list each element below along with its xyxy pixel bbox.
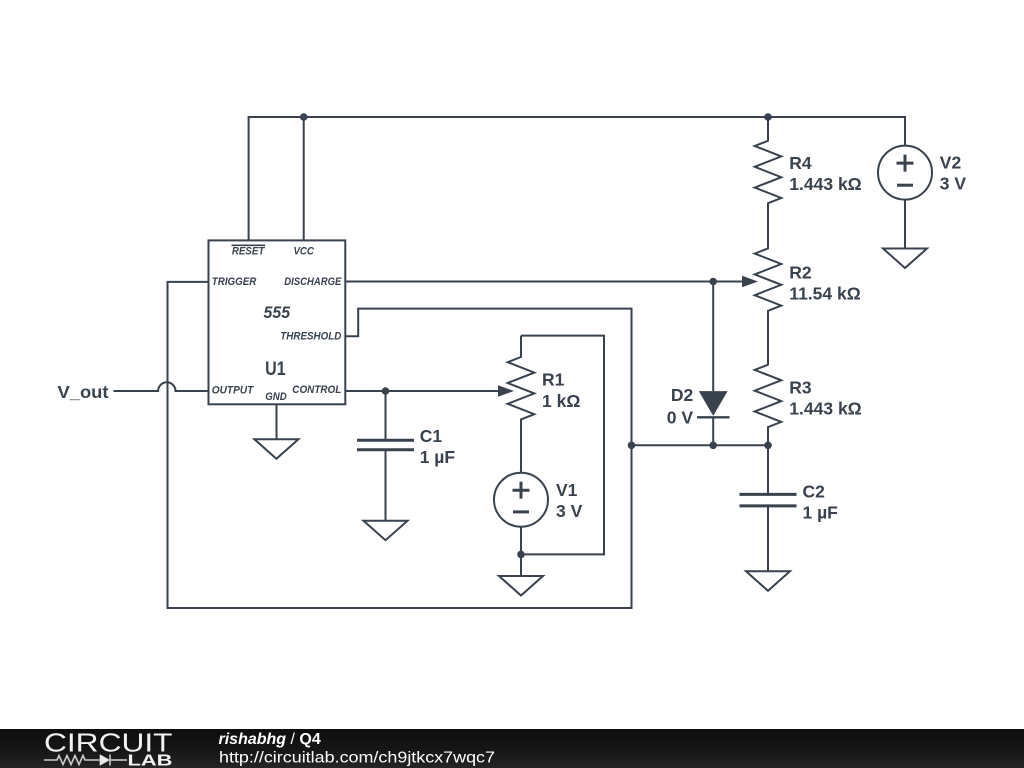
svg-text:TRIGGER: TRIGGER: [212, 276, 257, 288]
svg-text:LAB: LAB: [128, 753, 173, 768]
svg-text:GND: GND: [265, 391, 287, 403]
svg-text:R2: R2: [789, 262, 812, 282]
svg-text:U1: U1: [265, 359, 286, 380]
svg-text:OUTPUT: OUTPUT: [212, 385, 255, 397]
svg-text:D2: D2: [671, 385, 694, 405]
svg-text:C2: C2: [803, 481, 826, 501]
svg-text:3 V: 3 V: [556, 501, 583, 521]
svg-text:DISCHARGE: DISCHARGE: [284, 276, 342, 288]
svg-text:http://circuitlab.com/ch9jtkcx: http://circuitlab.com/ch9jtkcx7wqc7: [219, 750, 495, 767]
svg-text:1 µF: 1 µF: [803, 502, 839, 522]
svg-text:1 µF: 1 µF: [420, 447, 456, 467]
svg-text:C1: C1: [420, 426, 443, 446]
svg-text:3 V: 3 V: [940, 174, 967, 194]
svg-text:R4: R4: [789, 153, 812, 173]
svg-text:V1: V1: [556, 480, 578, 500]
svg-text:R3: R3: [789, 377, 812, 397]
svg-text:R1: R1: [542, 370, 565, 390]
svg-text:rishabhg / Q4: rishabhg / Q4: [219, 731, 321, 748]
svg-text:555: 555: [264, 303, 291, 322]
svg-text:VCC: VCC: [293, 246, 314, 258]
svg-text:1 kΩ: 1 kΩ: [542, 391, 580, 411]
svg-text:CONTROL: CONTROL: [292, 384, 341, 396]
svg-text:V_out: V_out: [58, 382, 109, 402]
svg-text:11.54 kΩ: 11.54 kΩ: [789, 283, 860, 303]
svg-text:RESET: RESET: [232, 246, 266, 258]
svg-text:0 V: 0 V: [667, 407, 694, 427]
svg-text:V2: V2: [940, 153, 962, 173]
svg-text:1.443 kΩ: 1.443 kΩ: [789, 174, 861, 194]
svg-text:1.443 kΩ: 1.443 kΩ: [789, 398, 861, 418]
svg-text:THRESHOLD: THRESHOLD: [280, 331, 341, 343]
